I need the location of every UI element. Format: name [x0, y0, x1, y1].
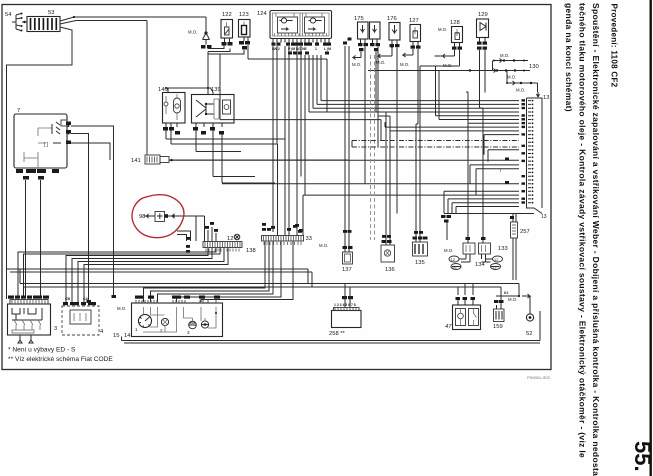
- wires under 127/128/129: [400, 49, 485, 124]
- ECU multiway connector 13: [527, 92, 550, 220]
- relay 139: [165, 87, 234, 135]
- svg-text:134: 134: [475, 262, 485, 268]
- warning lamp: [161, 318, 168, 325]
- tachometer gauge: [139, 315, 152, 328]
- svg-text:genda na konci schémat): genda na konci schémat): [564, 3, 574, 112]
- long cross wires y269/272: [7, 269, 313, 303]
- double relay module 124: [257, 11, 332, 39]
- battery junction 258: [329, 296, 361, 337]
- injector pair 175: [354, 16, 380, 51]
- lambda probe 136: [376, 112, 395, 273]
- sensor 127: [409, 18, 421, 49]
- lamp module 140: [158, 87, 185, 135]
- svg-text:141: 141: [131, 158, 141, 164]
- svg-text:98: 98: [139, 214, 145, 220]
- 124 pin row: [272, 39, 332, 55]
- svg-text:CB: CB: [65, 297, 70, 301]
- svg-text:175: 175: [354, 16, 364, 22]
- svg-text:[ ]: [ ]: [44, 142, 49, 148]
- svg-text:M.O.: M.O.: [117, 306, 126, 311]
- injection resistor 137: [342, 38, 353, 274]
- relay 122: [221, 12, 233, 46]
- rotated caption: Provedeni line: [564, 3, 653, 476]
- wire 53 down-left to ignition feed: [7, 27, 73, 299]
- shielded cable dash-dot pair: [352, 141, 519, 148]
- svg-text:124: 124: [257, 11, 267, 17]
- M.O. label mid top: [438, 27, 447, 32]
- svg-text:258 **: 258 **: [329, 331, 346, 337]
- svg-text:CA: CA: [83, 297, 88, 301]
- svg-text:M.O.: M.O.: [500, 53, 509, 58]
- svg-text:257: 257: [520, 229, 530, 235]
- spark plug leads 134: [449, 254, 503, 270]
- harness verticals under module 124: [271, 46, 305, 236]
- svg-text:M.O.: M.O.: [438, 27, 447, 32]
- svg-text:** Víz elektrické schéma Fiat: ** Víz elektrické schéma Fiat CODE: [8, 356, 113, 363]
- strip 12 left pin stubs: [186, 222, 328, 253]
- sensor 176: [387, 16, 400, 48]
- svg-text:54: 54: [5, 12, 12, 18]
- ECU harness strip 33: [262, 223, 312, 245]
- svg-text:47: 47: [445, 324, 452, 330]
- instrument cluster 15/14: [113, 296, 223, 340]
- cluster pin ticks: [136, 300, 216, 303]
- gauge 3: [189, 321, 197, 329]
- connector 13 pin ticks: [522, 99, 534, 204]
- shield dashes vertical pair: [371, 55, 375, 240]
- svg-text:M.O.: M.O.: [376, 60, 385, 65]
- svg-text:133: 133: [498, 246, 508, 252]
- connector 54: [5, 12, 27, 32]
- cluster internal wiring: [143, 307, 216, 332]
- ECU harness strip 12: [203, 234, 256, 254]
- svg-text:176: 176: [387, 16, 397, 22]
- alternator box 7: [14, 108, 67, 168]
- svg-text:I: I: [500, 168, 501, 173]
- wires strip 12 to bottom-left bundle: [18, 248, 228, 302]
- svg-text:L (M: L (M: [324, 47, 331, 51]
- svg-text:M.O.: M.O.: [444, 248, 453, 253]
- svg-text:12: 12: [494, 257, 499, 262]
- wires into connector 13 staircase: [169, 66, 534, 236]
- svg-text:33: 33: [306, 236, 312, 242]
- ground chain 130: [368, 53, 539, 93]
- svg-text:123: 123: [239, 12, 249, 18]
- svg-text:M.O.: M.O.: [352, 62, 361, 67]
- svg-text:15: 15: [113, 333, 119, 339]
- ignition coils 133: [441, 92, 508, 254]
- TDC sensor 135: [413, 60, 460, 266]
- svg-text:138: 138: [246, 248, 256, 254]
- wire 53 to top bus: [60, 16, 206, 24]
- node junction under top bus: [188, 17, 212, 49]
- wires strip 33 to cluster bundle: [144, 242, 294, 303]
- wires into connector 13 top rows: [309, 55, 519, 112]
- schematic frame border: [2, 5, 551, 370]
- svg-text:128: 128: [450, 20, 460, 26]
- svg-text:P3N081LJE20: P3N081LJE20: [527, 376, 550, 380]
- svg-text:Spouštění - Elektronické zapal: Spouštění - Elektronické zapalování a vs…: [591, 3, 601, 476]
- svg-text:* Není u výbavy ED - S: * Není u výbavy ED - S: [8, 347, 76, 354]
- svg-text:13: 13: [541, 214, 547, 220]
- svg-text:13: 13: [543, 95, 549, 101]
- relay unit 47: [445, 284, 481, 331]
- svg-text:136: 136: [385, 267, 395, 273]
- svg-text:3: 3: [54, 326, 57, 332]
- wire 7 right pins to risers: [68, 125, 114, 300]
- svg-text:135: 135: [415, 260, 425, 266]
- wires 122/123 to junction and down: [168, 45, 327, 112]
- svg-text:12: 12: [451, 257, 456, 262]
- svg-text:tečného tlaku motorového oleje: tečného tlaku motorového oleje - Kontrol…: [578, 3, 588, 458]
- gauge 4: [201, 321, 208, 328]
- svg-text:55.: 55.: [630, 441, 653, 472]
- svg-text:53: 53: [48, 10, 54, 16]
- wire 7 bottom drops: [26, 180, 41, 297]
- svg-text:M.O.: M.O.: [188, 30, 197, 35]
- red annotation ellipse: [132, 195, 184, 238]
- immobiliser dashed box 4: [62, 297, 104, 335]
- svg-text:M.O.: M.O.: [508, 297, 517, 302]
- wire bus down at x147: [146, 21, 148, 155]
- svg-text:Provedení: 1108 CF2: Provedení: 1108 CF2: [610, 4, 619, 88]
- svg-text:7: 7: [17, 108, 20, 114]
- svg-text:M.O.: M.O.: [400, 62, 409, 67]
- svg-text:P (M NO NE: P (M NO NE: [288, 47, 308, 51]
- battery/fusebox 53: [27, 10, 60, 32]
- svg-text:K2: K2: [504, 291, 508, 295]
- sensor 129: [477, 12, 489, 50]
- svg-text:14: 14: [124, 333, 131, 339]
- page right edge rule: [650, 0, 652, 476]
- relay 123: [239, 12, 251, 50]
- wires under 139/140: [166, 131, 285, 237]
- svg-text:139: 139: [211, 87, 221, 93]
- oil pressure switch 98: [139, 212, 196, 222]
- footnote text: [8, 347, 550, 381]
- ground point 52: [504, 291, 534, 337]
- svg-text:130: 130: [529, 64, 539, 70]
- wire riser x220 to mid mesh: [220, 92, 381, 141]
- svg-text:159: 159: [493, 324, 503, 330]
- svg-text:52: 52: [526, 331, 532, 337]
- svg-text:M.O.: M.O.: [516, 88, 525, 93]
- inline connector 141: [131, 154, 348, 164]
- ignition switch 3: [8, 296, 58, 344]
- wires from 98 into strip 12: [177, 216, 205, 241]
- svg-text:1: 1: [315, 47, 317, 51]
- svg-text:127: 127: [409, 18, 419, 24]
- box 7 pin labels: [16, 122, 71, 180]
- sensor 128: [450, 20, 463, 50]
- svg-text:129: 129: [478, 12, 488, 18]
- wires under 175/176: [352, 47, 397, 214]
- svg-text:137: 137: [342, 267, 352, 273]
- bottom bus wires: [20, 269, 540, 343]
- connector 257: [510, 214, 530, 281]
- svg-text:M.O.: M.O.: [319, 243, 328, 248]
- svg-text:122: 122: [222, 12, 232, 18]
- diagnostic socket 159: [493, 296, 517, 330]
- svg-text:M.O.: M.O.: [507, 75, 516, 80]
